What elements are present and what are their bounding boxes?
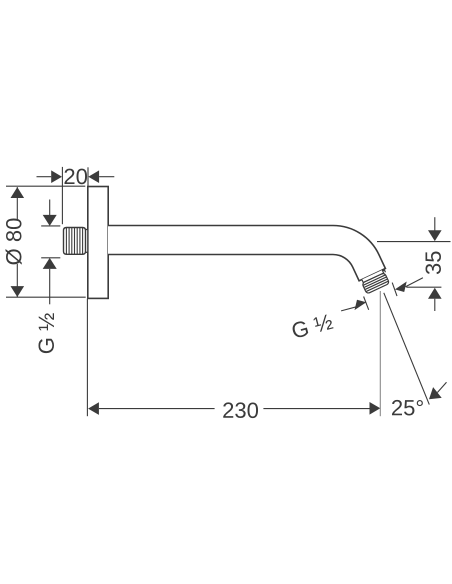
svg-text:35: 35 xyxy=(421,251,446,275)
knurl OD upper tick xyxy=(41,225,60,227)
connector neck between knurl and flange xyxy=(85,230,88,253)
dimension 230: right line segment xyxy=(263,408,369,410)
outlet thread G1/2 at tip xyxy=(360,269,390,294)
svg-text:25°: 25° xyxy=(391,395,424,420)
knurl OD up arrow xyxy=(43,258,57,304)
wall flange plate xyxy=(88,187,108,299)
knurl OD lower tick xyxy=(41,257,60,259)
dimension 35: bottom arrow with tail xyxy=(428,288,442,311)
25deg angle line xyxy=(384,293,430,405)
dimension 230: left line segment xyxy=(99,408,215,410)
dimension O80: dimension line lower segment xyxy=(16,264,18,297)
svg-text:Ø 80: Ø 80 xyxy=(2,218,27,266)
outlet thread OD right arrow with tail xyxy=(395,278,423,292)
dimension 230: left extension line xyxy=(86,299,88,416)
knurled wall thread xyxy=(64,228,86,255)
svg-text:G ½: G ½ xyxy=(289,309,336,344)
dimension 20: left arrow xyxy=(51,170,62,183)
dimension 230 / 25deg: right vertical extension line xyxy=(379,291,381,416)
dimension 20: right tail line xyxy=(99,176,114,178)
dimension 20: left tail line xyxy=(37,176,52,178)
outlet thread OD left arrow with leader xyxy=(341,300,366,311)
dimension O80: dimension line upper segment xyxy=(16,187,18,219)
outlet thread OD left tick xyxy=(364,297,369,310)
shower arm tube xyxy=(108,226,385,281)
dimension 20: right extension line xyxy=(87,167,89,186)
dimension 35: top extension line xyxy=(377,241,451,243)
dimension 35: bottom extension line xyxy=(406,286,441,288)
knurl OD down arrow xyxy=(43,200,57,226)
svg-text:20: 20 xyxy=(63,164,88,189)
dimension 230: left arrow xyxy=(88,402,99,415)
dimension 35: top arrow with tail xyxy=(428,217,442,241)
dimension 230: right arrow xyxy=(370,402,381,415)
dimension 20: right arrow xyxy=(88,170,99,183)
dimension O80: top extension line xyxy=(6,185,85,187)
svg-text:230: 230 xyxy=(222,398,259,423)
outlet thread OD right tick xyxy=(392,283,397,297)
svg-text:G ½: G ½ xyxy=(34,313,59,355)
dimension O80: bottom extension line xyxy=(6,296,86,298)
dimension O80: bottom arrow xyxy=(11,286,25,297)
25deg arrow with tail xyxy=(429,382,447,399)
dimension O80: top arrow xyxy=(11,187,25,198)
dimension 20: left extension line xyxy=(61,167,63,224)
